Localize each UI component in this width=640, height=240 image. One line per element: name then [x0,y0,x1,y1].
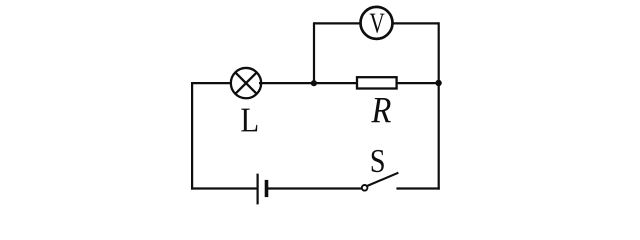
node B (junction dot, right) [435,80,441,86]
battery cell: short thick plate [265,180,269,197]
node A (junction dot, left) [311,80,317,86]
battery cell: long thin plate [257,174,259,205]
wire: right rail, lower segment from node B to bottom corner [438,83,440,190]
resistor R (box) [357,77,397,88]
wire: lamp row, left rail to lamp [192,82,233,84]
wire: resistor to node B [397,82,439,84]
voltmeter dial letter V [370,14,385,33]
resistor label R [371,98,390,122]
voltmeter V (circle body) [361,7,393,39]
wire: switch to right rail [396,187,439,189]
lamp label L [241,109,257,132]
wire: bottom-left segment to battery [191,187,258,189]
wire: left rail vertical [191,82,193,190]
wire: lamp to node A [259,82,314,84]
lamp L (circle with diagonal cross) [231,68,261,98]
wire: node A to resistor [314,82,357,84]
switch label S [372,150,384,172]
wire: voltmeter branch, left vertical drop to node A [313,22,315,83]
wire: right rail, upper segment from top corner to node B [438,22,440,83]
wire: battery to switch [268,187,362,189]
wire: voltmeter branch, top-left horizontal [314,22,363,24]
wire: voltmeter branch, top-right horizontal [390,22,439,24]
switch S: open lever arm [367,173,398,186]
switch S: pivot ring [362,185,368,191]
